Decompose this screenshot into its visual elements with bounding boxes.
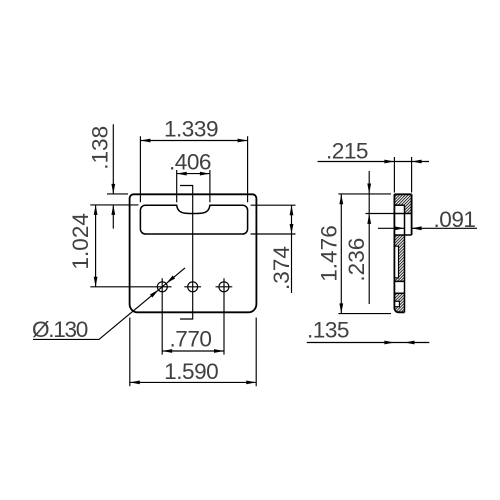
dimension .135 [307, 317, 430, 344]
svg-text:1.024: 1.024 [68, 213, 93, 270]
svg-text:.406: .406 [169, 150, 211, 175]
dimension 1.339 [140, 117, 247, 203]
svg-text:.374: .374 [269, 246, 294, 290]
center line with hooks [180, 186, 193, 320]
side view hole edges [394, 281, 404, 293]
svg-text:1.339: 1.339 [164, 117, 218, 142]
front view recess pocket with notch [140, 205, 247, 234]
side view inner slot [394, 246, 398, 278]
dimension .215 [318, 139, 429, 193]
dimension 1.590 [130, 318, 256, 387]
side view lower web hatch [394, 293, 404, 312]
dimension .406 [169, 150, 211, 203]
side view web right face [404, 205, 406, 312]
side view recess bottom step [394, 234, 411, 236]
front view plate outline [130, 194, 257, 312]
svg-text:.215: .215 [326, 139, 368, 164]
dimension .374 [251, 205, 296, 293]
svg-text:.091: .091 [434, 207, 476, 232]
side view top edge [394, 193, 411, 195]
dimension .236 [344, 171, 371, 304]
svg-text:.138: .138 [88, 126, 113, 170]
svg-text:Ø.130: Ø.130 [32, 317, 88, 342]
side view upper web hatch [394, 235, 404, 281]
dimension .770 [162, 278, 224, 354]
side view left face and bottom edge [394, 194, 404, 312]
side view flange right face [411, 194, 413, 235]
svg-text:.135: .135 [307, 317, 349, 342]
dimension 1.476 [317, 194, 392, 314]
hole 1 [157, 282, 167, 292]
svg-text:.236: .236 [344, 238, 369, 282]
svg-text:1.476: 1.476 [317, 225, 342, 282]
side view recess top edge in section [394, 204, 404, 206]
leader diameter .130 [32, 268, 185, 342]
hole 2 [188, 282, 198, 292]
hole crosshairs [90, 286, 232, 288]
side view flange hatch [394, 194, 411, 213]
svg-text:.770: .770 [170, 326, 212, 351]
svg-text:1.590: 1.590 [164, 359, 218, 384]
hole 3 [219, 282, 229, 292]
dimension .138 [88, 124, 139, 228]
side view lower notch [394, 301, 399, 306]
dimension 1.024 [68, 205, 98, 287]
side view notch bottom edge and extension [366, 213, 395, 215]
dimension .091 [378, 207, 477, 232]
